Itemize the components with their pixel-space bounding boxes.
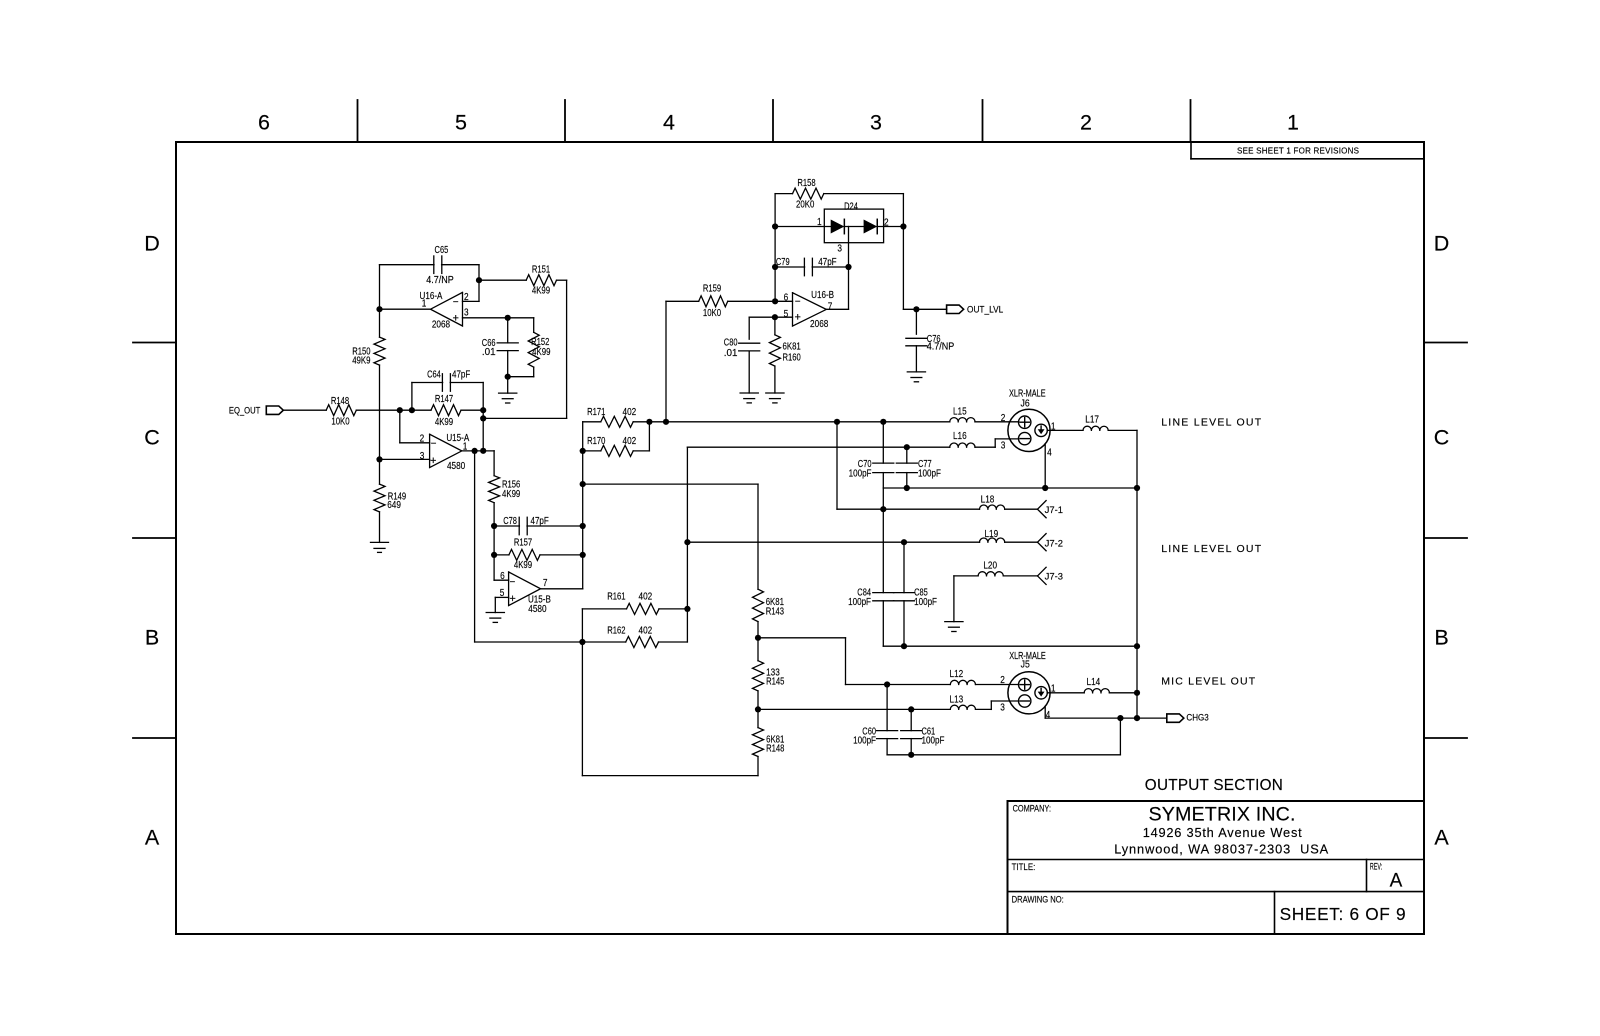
svg-text:R151: R151 — [532, 264, 550, 275]
svg-text:+: + — [430, 455, 436, 467]
svg-text:MIC LEVEL OUT: MIC LEVEL OUT — [1161, 676, 1256, 688]
svg-text:J7-2: J7-2 — [1045, 539, 1063, 549]
svg-text:1: 1 — [1051, 421, 1056, 432]
svg-text:J7-1: J7-1 — [1045, 505, 1063, 515]
svg-text:B: B — [1434, 626, 1448, 650]
svg-text:L20: L20 — [983, 561, 997, 572]
svg-text:SEE SHEET 1 FOR REVISIONS: SEE SHEET 1 FOR REVISIONS — [1237, 147, 1359, 156]
svg-text:TITLE:: TITLE: — [1012, 862, 1036, 872]
svg-text:3: 3 — [1000, 703, 1005, 714]
svg-text:2: 2 — [1001, 413, 1006, 424]
svg-text:4580: 4580 — [447, 461, 466, 472]
svg-text:4580: 4580 — [528, 604, 547, 615]
svg-text:C64: C64 — [427, 370, 441, 381]
svg-text:+: + — [452, 313, 458, 325]
svg-text:1: 1 — [422, 299, 427, 310]
svg-text:C: C — [1434, 426, 1450, 450]
svg-text:+: + — [794, 312, 800, 324]
svg-text:REV:: REV: — [1370, 862, 1382, 872]
svg-text:R158: R158 — [797, 178, 815, 189]
svg-text:2: 2 — [1000, 675, 1005, 686]
svg-text:2068: 2068 — [810, 319, 829, 330]
svg-text:4K99: 4K99 — [532, 286, 550, 297]
svg-text:L17: L17 — [1085, 415, 1099, 426]
svg-text:6K81: 6K81 — [783, 342, 801, 353]
svg-text:5: 5 — [455, 111, 467, 135]
svg-text:100pF: 100pF — [848, 597, 871, 608]
svg-text:R171: R171 — [587, 407, 605, 418]
svg-text:4K99: 4K99 — [502, 489, 520, 500]
svg-text:LINE LEVEL OUT: LINE LEVEL OUT — [1161, 417, 1262, 429]
svg-text:L14: L14 — [1087, 677, 1101, 688]
svg-text:6: 6 — [784, 293, 789, 304]
svg-text:+: + — [509, 593, 515, 605]
svg-text:−: − — [509, 577, 515, 588]
svg-text:R143: R143 — [766, 607, 784, 618]
svg-text:7: 7 — [543, 578, 548, 589]
svg-text:3: 3 — [1001, 440, 1006, 451]
svg-text:DRAWING NO:: DRAWING NO: — [1012, 895, 1064, 905]
svg-text:OUTPUT SECTION: OUTPUT SECTION — [1145, 777, 1283, 794]
svg-text:R162: R162 — [607, 626, 625, 637]
svg-text:402: 402 — [623, 436, 637, 447]
svg-text:A: A — [1390, 871, 1403, 892]
svg-text:R157: R157 — [514, 538, 532, 549]
svg-text:R148: R148 — [766, 744, 784, 755]
svg-text:COMPANY:: COMPANY: — [1013, 804, 1051, 814]
svg-text:L18: L18 — [981, 495, 995, 506]
svg-text:Lynnwood, WA 98037-2303 USA: Lynnwood, WA 98037-2303 USA — [1114, 842, 1328, 857]
svg-text:R145: R145 — [766, 677, 784, 688]
svg-text:2: 2 — [1080, 111, 1092, 135]
svg-text:47pF: 47pF — [531, 516, 549, 527]
svg-text:5: 5 — [784, 309, 789, 320]
svg-text:2: 2 — [884, 218, 889, 229]
svg-text:J7-3: J7-3 — [1045, 572, 1063, 582]
svg-text:C65: C65 — [435, 245, 449, 256]
svg-text:C79: C79 — [776, 257, 790, 268]
svg-text:.01: .01 — [482, 347, 496, 358]
svg-text:D24: D24 — [844, 201, 858, 212]
svg-text:R159: R159 — [703, 284, 721, 295]
svg-text:402: 402 — [639, 626, 653, 637]
svg-text:3: 3 — [420, 451, 425, 462]
svg-text:402: 402 — [623, 407, 637, 418]
svg-text:100pF: 100pF — [853, 736, 876, 747]
svg-text:EQ_OUT: EQ_OUT — [229, 406, 261, 416]
svg-text:49K9: 49K9 — [352, 356, 370, 367]
svg-text:402: 402 — [639, 592, 653, 603]
svg-text:4: 4 — [1047, 448, 1052, 459]
svg-text:649: 649 — [387, 500, 401, 511]
svg-text:6: 6 — [258, 111, 270, 135]
svg-text:20K0: 20K0 — [796, 199, 814, 210]
svg-text:10K0: 10K0 — [331, 417, 349, 428]
svg-text:4.7/NP: 4.7/NP — [426, 275, 454, 286]
svg-text:100pF: 100pF — [914, 597, 937, 608]
svg-text:L13: L13 — [950, 694, 964, 705]
svg-text:−: − — [431, 438, 437, 449]
svg-text:47pF: 47pF — [818, 257, 836, 268]
svg-text:C78: C78 — [503, 516, 517, 527]
svg-text:47pF: 47pF — [452, 370, 470, 381]
svg-text:100pF: 100pF — [849, 468, 872, 479]
svg-text:R170: R170 — [587, 436, 605, 447]
svg-text:1: 1 — [463, 441, 468, 452]
svg-text:R148: R148 — [331, 396, 349, 407]
svg-text:1: 1 — [817, 217, 822, 228]
svg-text:2: 2 — [464, 292, 469, 303]
svg-text:L19: L19 — [984, 529, 998, 540]
svg-text:1: 1 — [1287, 111, 1299, 135]
svg-text:A: A — [145, 826, 160, 850]
svg-text:LINE LEVEL OUT: LINE LEVEL OUT — [1161, 543, 1262, 555]
svg-text:4: 4 — [1046, 710, 1051, 721]
svg-text:B: B — [145, 626, 159, 650]
svg-text:D: D — [1434, 232, 1450, 256]
svg-text:2068: 2068 — [432, 320, 451, 331]
svg-text:−: − — [453, 297, 459, 308]
svg-text:U16-B: U16-B — [811, 290, 834, 301]
svg-text:L16: L16 — [953, 431, 967, 442]
svg-text:6: 6 — [500, 571, 505, 582]
svg-text:A: A — [1434, 826, 1449, 850]
svg-text:100pF: 100pF — [922, 736, 945, 747]
svg-text:CHG3: CHG3 — [1186, 713, 1208, 723]
svg-text:4: 4 — [663, 111, 675, 135]
svg-text:J6: J6 — [1021, 399, 1030, 410]
svg-text:3: 3 — [837, 244, 842, 255]
svg-text:D: D — [144, 232, 160, 256]
svg-text:4K99: 4K99 — [514, 560, 532, 571]
svg-text:R161: R161 — [607, 592, 625, 603]
svg-text:7: 7 — [828, 301, 833, 312]
svg-text:.01: .01 — [724, 348, 738, 359]
svg-text:SHEET: 6 OF 9: SHEET: 6 OF 9 — [1280, 904, 1406, 924]
svg-text:J5: J5 — [1021, 660, 1030, 671]
svg-text:OUT_LVL: OUT_LVL — [967, 305, 1003, 315]
svg-text:C: C — [144, 426, 160, 450]
svg-text:3: 3 — [870, 111, 882, 135]
svg-text:−: − — [795, 297, 801, 308]
svg-text:1: 1 — [1051, 684, 1056, 695]
svg-text:4K99: 4K99 — [532, 347, 550, 358]
svg-text:R147: R147 — [435, 394, 453, 405]
svg-text:4.7/NP: 4.7/NP — [927, 341, 955, 352]
svg-text:4K99: 4K99 — [435, 417, 453, 428]
svg-text:100pF: 100pF — [918, 468, 941, 479]
svg-text:14926 35th Avenue West: 14926 35th Avenue West — [1143, 825, 1302, 840]
svg-text:L12: L12 — [950, 669, 964, 680]
svg-text:SYMETRIX INC.: SYMETRIX INC. — [1149, 804, 1296, 826]
svg-text:L15: L15 — [953, 407, 967, 418]
svg-text:3: 3 — [464, 308, 469, 319]
svg-text:10K0: 10K0 — [703, 308, 721, 319]
svg-text:5: 5 — [500, 588, 505, 599]
svg-text:2: 2 — [420, 433, 425, 444]
svg-text:R160: R160 — [783, 353, 801, 364]
